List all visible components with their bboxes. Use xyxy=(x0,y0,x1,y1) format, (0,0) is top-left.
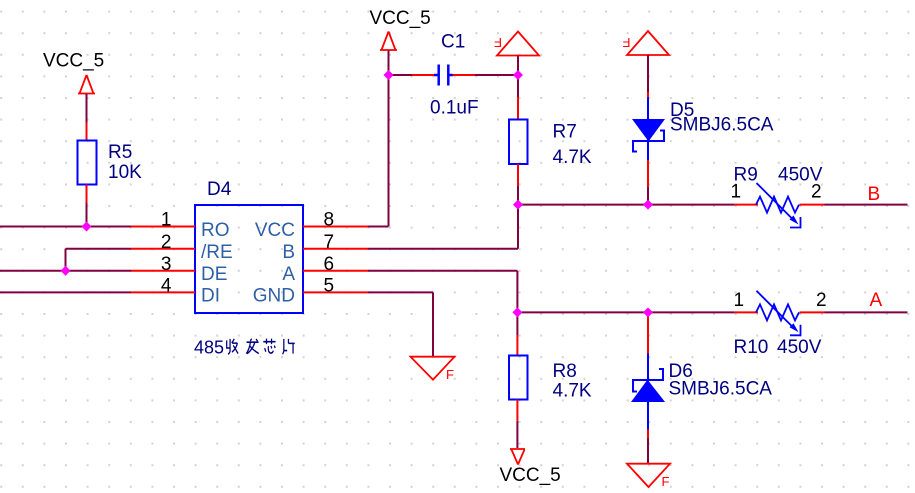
varistor R9 pin2 lead xyxy=(800,204,825,206)
svg-text:8: 8 xyxy=(324,210,335,231)
varistor R9 arrowhead xyxy=(790,216,799,225)
svg-text:GND: GND xyxy=(253,286,295,307)
wire B node to D5 node xyxy=(518,204,648,206)
diode D6 red top xyxy=(647,312,649,353)
pin 5 lead xyxy=(303,291,368,293)
svg-text:1: 1 xyxy=(734,290,745,311)
wire D6 to ground xyxy=(647,438,649,464)
resistor R8 pin bottom xyxy=(516,400,518,421)
svg-text:VCC_5: VCC_5 xyxy=(370,8,431,29)
svg-text:B: B xyxy=(282,242,295,263)
pin 8 lead xyxy=(303,226,368,228)
wire F1 junction to R7 xyxy=(517,75,519,97)
resistor R5 pin top xyxy=(86,123,88,141)
svg-text:SMBJ6.5CA: SMBJ6.5CA xyxy=(670,115,774,136)
svg-text:4.7K: 4.7K xyxy=(553,381,592,402)
resistor R7 xyxy=(509,120,528,165)
svg-text:0.1uF: 0.1uF xyxy=(430,98,479,119)
pin 3 lead xyxy=(131,270,195,272)
ground F below chip triangle xyxy=(411,357,455,380)
svg-text:F: F xyxy=(494,35,502,50)
svg-text:F: F xyxy=(623,35,631,50)
diode D6 pin bottom red xyxy=(647,430,649,439)
resistor R8 pin top xyxy=(516,335,518,356)
svg-text:R8: R8 xyxy=(553,361,577,382)
wire pin7 to B riser xyxy=(368,248,518,250)
svg-text:D4: D4 xyxy=(207,179,232,200)
svg-text:DI: DI xyxy=(201,286,220,307)
wire D5 to B net xyxy=(647,187,649,205)
wire R5 to RO net xyxy=(86,203,88,227)
junction B node xyxy=(513,200,523,210)
wire F2 stem xyxy=(647,55,649,92)
diode D5 pin bottom red xyxy=(647,160,649,187)
svg-text:RO: RO xyxy=(201,220,230,241)
wire A riser down xyxy=(516,271,518,313)
svg-text:A: A xyxy=(870,290,883,311)
svg-text:DE: DE xyxy=(201,264,227,285)
wire pin8 to VCC node xyxy=(368,226,389,228)
wire pin6 to A riser xyxy=(368,270,517,272)
varistor R9 pin1 lead xyxy=(735,204,758,206)
varistor R10 pin1 lead xyxy=(735,311,758,313)
wire F1 stem xyxy=(517,56,519,76)
varistor R10 arrowhead xyxy=(790,323,799,332)
svg-text:2: 2 xyxy=(811,182,822,203)
capacitor C1 xyxy=(434,65,453,86)
junction D5/B xyxy=(643,200,653,210)
wire C1 left xyxy=(389,74,413,76)
wire VCC_5 top stem xyxy=(388,51,390,76)
svg-text:B: B xyxy=(868,184,881,205)
svg-text:F: F xyxy=(662,474,670,489)
svg-text:R5: R5 xyxy=(108,142,132,163)
wire C1 right xyxy=(475,74,518,76)
wire A node down to R8 xyxy=(516,312,518,335)
varistor R10 xyxy=(756,291,801,336)
svg-text:10K: 10K xyxy=(108,162,142,183)
resistor R8 xyxy=(509,356,528,400)
svg-text:4: 4 xyxy=(161,276,172,297)
wire B node down to pin7 row xyxy=(517,205,519,249)
resistor R7 pin bottom xyxy=(517,164,519,186)
capacitor C1 pin left xyxy=(412,74,435,76)
power VCC_5 top arrow xyxy=(380,32,397,51)
junction D6/A xyxy=(643,307,653,317)
chip D4 chinese caption glyphs xyxy=(227,339,295,355)
power VCC_5 left arrow xyxy=(78,75,95,94)
pin 6 lead xyxy=(303,270,368,272)
resistor R7 pin top xyxy=(517,97,519,120)
diode D5 xyxy=(633,97,664,160)
svg-text:VCC: VCC xyxy=(255,220,295,241)
pin 7 lead xyxy=(303,248,368,250)
svg-text:VCC_5: VCC_5 xyxy=(43,51,104,72)
svg-text:C1: C1 xyxy=(441,32,465,53)
svg-text:5: 5 xyxy=(324,276,335,297)
svg-text:SMBJ6.5CA: SMBJ6.5CA xyxy=(669,379,773,400)
svg-text:450V: 450V xyxy=(777,337,822,358)
resistor R5 pin bottom xyxy=(86,185,88,204)
wire D6 node to R10 xyxy=(648,311,735,313)
wire RO net horizontal xyxy=(0,226,131,228)
wire pin5 to gnd corner xyxy=(368,291,433,293)
power F top-2 triangle xyxy=(627,31,669,55)
wire D5 node to R9 xyxy=(648,204,735,206)
wire R7 to B node xyxy=(517,186,519,205)
svg-text:6: 6 xyxy=(324,254,335,275)
wire net B to edge xyxy=(825,204,908,206)
wire net A to edge xyxy=(825,311,908,313)
pin 4 lead xyxy=(131,291,195,293)
op-amp U1 chip D4 body xyxy=(195,205,303,313)
wire DE net horizontal xyxy=(0,270,131,272)
resistor R5 xyxy=(78,141,97,185)
diode D5 pin top red xyxy=(647,92,649,97)
junction /RE/DE xyxy=(61,266,71,276)
varistor R10 pin2 lead xyxy=(800,311,825,313)
wire DI net horizontal xyxy=(0,291,131,293)
pin 2 lead xyxy=(131,248,195,250)
power VCC_5 bottom arrow xyxy=(510,449,525,465)
wire VCC_5 to R5 xyxy=(86,94,88,123)
svg-text:/RE: /RE xyxy=(201,242,233,263)
junction VCC/C1 xyxy=(384,70,394,80)
wire gnd corner down xyxy=(432,292,434,356)
pin 1 lead xyxy=(131,226,195,228)
wire /RE jog vertical xyxy=(65,249,67,271)
junction C1/R7 xyxy=(513,70,523,80)
wire A node to D6 node xyxy=(517,311,648,313)
svg-text:VCC_5: VCC_5 xyxy=(500,465,561,486)
svg-text:7: 7 xyxy=(324,232,335,253)
svg-text:R10: R10 xyxy=(734,337,769,358)
svg-text:4.7K: 4.7K xyxy=(553,147,592,168)
svg-text:F: F xyxy=(446,367,454,382)
varistor R9 xyxy=(756,183,801,228)
svg-text:A: A xyxy=(282,264,295,285)
wire VCC node vertical xyxy=(388,75,390,227)
svg-text:1: 1 xyxy=(161,210,172,231)
power F top-1 triangle xyxy=(497,32,539,56)
wire /RE jog horizontal xyxy=(66,248,132,250)
svg-text:2: 2 xyxy=(161,232,172,253)
svg-text:3: 3 xyxy=(161,254,172,275)
wire R8 to VCC_5 bottom xyxy=(516,421,518,448)
capacitor C1 pin right xyxy=(453,74,476,76)
ground F bottom right triangle xyxy=(627,464,670,487)
junction R5/RO xyxy=(82,222,92,232)
junction A node xyxy=(512,307,522,317)
diode D6 xyxy=(632,354,664,430)
svg-text:R7: R7 xyxy=(553,122,577,143)
svg-text:2: 2 xyxy=(816,290,827,311)
svg-text:R9: R9 xyxy=(734,165,758,186)
svg-text:485: 485 xyxy=(194,338,224,358)
